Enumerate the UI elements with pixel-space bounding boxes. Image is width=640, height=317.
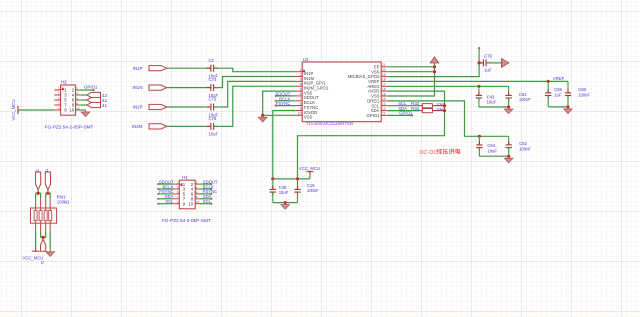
capacitor C69 — [545, 81, 551, 107]
wire RN1 pin4 to ground — [49, 232, 51, 250]
power port VCC_MCU (RN1 bottom) — [32, 248, 40, 251]
svg-text:10uF: 10uF — [209, 132, 219, 137]
ground (H2 pin10) — [81, 110, 90, 117]
U3 left pin stubs 1-10 — [296, 72, 303, 116]
wire RN1 pin2 down — [40, 232, 42, 238]
capacitor C62 — [506, 136, 512, 156]
open wire end — [275, 100, 277, 102]
wire H1 left FSYNC — [158, 193, 173, 195]
connector H2 body — [61, 85, 76, 115]
U3 right pin names — [348, 64, 380, 118]
svg-text:20: 20 — [382, 68, 386, 72]
ground (AREG caps) — [504, 107, 513, 114]
svg-text:TLV320ADC5120IRTER: TLV320ADC5120IRTER — [306, 121, 353, 126]
net flag IN2P — [149, 104, 167, 109]
open wire end — [210, 198, 212, 200]
wire C74 to U3 — [221, 77, 296, 88]
annotation chinese glyphs (drawn) — [437, 149, 460, 154]
wire U3 SDA pin12 to R34 — [388, 110, 420, 112]
svg-text:10uF: 10uF — [487, 148, 497, 153]
wire H2 pin6 — [80, 99, 87, 101]
svg-text:FG-PZ2 54-2-05P-SMT: FG-PZ2 54-2-05P-SMT — [162, 218, 211, 223]
svg-text:C75: C75 — [209, 97, 217, 102]
svg-text:1uF: 1uF — [484, 68, 492, 73]
junction (R33 to rail) — [443, 104, 446, 107]
connector H1 body — [179, 180, 195, 209]
wire H1 right SCL — [200, 203, 212, 205]
net flag 41 — [87, 102, 101, 107]
wire U3 EP pin21 — [388, 66, 435, 68]
wire U3 SDOUT pin6 — [276, 95, 296, 97]
wire junction to RN1 pins 1-2 — [36, 193, 41, 199]
resistor network RN1 — [31, 199, 57, 232]
capacitor C16 — [294, 179, 300, 203]
junction (C68 bottom) — [566, 105, 569, 108]
svg-text:18: 18 — [382, 78, 386, 82]
resistor R33 — [419, 104, 444, 108]
svg-text:C74: C74 — [209, 77, 217, 82]
junction (decoupling ground) — [284, 201, 287, 204]
open wire end — [411, 114, 413, 116]
wire H1 left BCLK — [158, 188, 173, 190]
svg-text:11: 11 — [45, 169, 49, 173]
wire flag12 to junction — [37, 190, 39, 193]
wire H2 pin10 to ground — [80, 109, 85, 111]
svg-text:42: 42 — [40, 261, 44, 265]
wire H1 left SCL — [158, 203, 173, 205]
net flag IN1P — [149, 66, 167, 71]
svg-text:10: 10 — [76, 106, 80, 110]
junction (C62 bottom) — [507, 155, 510, 158]
wire C45-C16 bottoms — [273, 202, 298, 204]
wire to RN1 pin3 — [45, 193, 47, 199]
svg-text:100kΩ: 100kΩ — [57, 200, 70, 205]
svg-text:IN2P: IN2P — [133, 105, 143, 110]
junction (C45 top) — [271, 177, 274, 180]
svg-text:VSS: VSS — [304, 115, 313, 120]
junction (C79 left) — [478, 61, 481, 64]
open wire end — [157, 193, 159, 195]
junction (RN1 bottom mid) — [42, 236, 45, 239]
net flag IN1N — [149, 85, 167, 90]
ground (VREF caps) — [564, 107, 573, 114]
net flag 42 — [87, 97, 101, 102]
wire VCC rail — [298, 101, 445, 179]
net flag 43 — [87, 92, 101, 97]
svg-text:7: 7 — [300, 97, 302, 101]
svg-text:100nF: 100nF — [578, 92, 590, 97]
open wire end — [210, 193, 212, 195]
net flag (RN1 pin3/4 top) — [45, 172, 50, 190]
wire VCC_MCU node — [273, 178, 310, 180]
wire U3 VREF pin18 — [388, 80, 568, 82]
svg-text:H2: H2 — [61, 80, 67, 85]
capacitor C79 — [479, 59, 491, 66]
svg-text:10: 10 — [196, 200, 200, 204]
capacitor C2 — [204, 65, 222, 72]
svg-text:9: 9 — [300, 107, 302, 111]
U3 pin-1 arrow — [303, 70, 305, 73]
svg-text:FSYNC: FSYNC — [276, 101, 291, 106]
ground (U3 VSS) — [258, 115, 267, 122]
svg-text:SCL: SCL — [165, 199, 174, 204]
junction (C61 bottom) — [507, 105, 510, 108]
svg-text:1: 1 — [300, 68, 302, 72]
svg-text:8: 8 — [300, 102, 302, 106]
ground (C45/C16) — [281, 203, 290, 210]
svg-text:GPIO1: GPIO1 — [367, 113, 381, 118]
power flag right (MICBIAS) — [502, 59, 509, 68]
svg-text:IN2M: IN2M — [132, 124, 143, 129]
wire IN2P to C75 — [167, 106, 204, 108]
svg-text:5: 5 — [300, 87, 302, 91]
wire flag11 to junction — [47, 190, 49, 193]
wire U3 DREG pin14 to C64/C62 — [388, 101, 509, 136]
wire H2 pin2 GPIO1 — [80, 89, 93, 91]
svg-text:H1: H1 — [182, 175, 188, 180]
junction (VSS ground) — [261, 114, 264, 117]
svg-text:FG-PZ2 54-2-05P-SMT: FG-PZ2 54-2-05P-SMT — [45, 125, 94, 130]
svg-text:3: 3 — [300, 78, 302, 82]
H2 pin stubs right (2,4,6,8,10) — [76, 90, 81, 110]
svg-text:16: 16 — [382, 87, 386, 91]
svg-text:GPIO1: GPIO1 — [399, 111, 413, 116]
wire stub above C79 — [478, 48, 480, 63]
capacitor C61 — [505, 86, 511, 107]
wire U3 IOVDD pin9 down to VCC rail — [273, 111, 296, 179]
wire C64-C62 bottoms — [479, 155, 508, 157]
capacitor C64 — [476, 136, 482, 156]
svg-text:100nF: 100nF — [519, 97, 531, 102]
resistor R34 — [419, 109, 444, 113]
wire H2 pin4 — [80, 94, 87, 96]
wire IN2M to C76 — [167, 125, 204, 127]
svg-text:4: 4 — [300, 83, 302, 87]
junction (C16 top) — [296, 177, 299, 180]
open wire end — [157, 203, 159, 205]
svg-text:17: 17 — [382, 83, 386, 87]
junction (C43 top) — [477, 85, 480, 88]
open wire end — [275, 95, 277, 97]
wire U3 BCLK pin7 — [276, 100, 296, 102]
svg-text:10: 10 — [69, 108, 74, 113]
U3 left pin numbers — [298, 68, 302, 116]
junction (R34 to rail) — [443, 109, 446, 112]
net flag (RN1 pin1/2 top) — [36, 172, 41, 190]
svg-text:C2: C2 — [209, 58, 215, 63]
wire H1 left SDOUT — [158, 183, 173, 185]
ground (DREG caps) — [504, 156, 513, 163]
svg-text:12: 12 — [382, 107, 386, 111]
H1 pin stubs left — [173, 184, 179, 204]
H1 inner pin numbers — [183, 182, 194, 207]
open wire end — [210, 183, 212, 185]
wire H1 right BCLK — [200, 188, 212, 190]
svg-text:15: 15 — [382, 92, 386, 96]
open wire end — [157, 183, 159, 185]
junction (C69 top) — [547, 80, 550, 83]
power port VCC_MCU (left) — [17, 106, 19, 114]
svg-text:VCC_MCU: VCC_MCU — [23, 255, 44, 260]
H2 pin-1 arrow — [62, 88, 64, 91]
net flag IN2M — [149, 124, 167, 129]
wire to VCC_MCU port — [309, 174, 311, 179]
capacitor C68 — [565, 81, 571, 107]
wire RN1 pin1 to VCC_MCU — [35, 232, 37, 248]
open wire end — [210, 203, 212, 205]
svg-text:R34: R34 — [411, 106, 419, 111]
svg-text:41: 41 — [102, 103, 108, 108]
svg-text:10: 10 — [188, 201, 193, 206]
wire U3 VSS pin20 — [388, 71, 435, 73]
svg-text:1uF: 1uF — [554, 92, 562, 97]
wire H1 right FSYNC — [200, 193, 212, 195]
wire C69-C68 bottoms — [548, 106, 568, 108]
wire junction to RN1 pins 3-4 — [46, 193, 51, 199]
H2 pin stubs left (1,3,5,7,9) — [54, 90, 60, 110]
ground (RN1) — [46, 250, 55, 257]
capacitor C74 — [204, 84, 222, 91]
power flag up (VSS net) — [430, 57, 439, 63]
wire H1 right SDA — [200, 198, 212, 200]
wire C76 to U3 — [221, 86, 296, 126]
svg-text:10: 10 — [298, 112, 302, 116]
wire U3 MICBIAS_GPO2 pin19 to C79 — [388, 63, 479, 77]
H2 outer pin numbers — [58, 86, 80, 110]
H1 pin-1 arrow — [180, 183, 182, 186]
wire to RN1 pin1 — [35, 193, 37, 199]
svg-text:IN1N: IN1N — [132, 85, 142, 90]
junction (VSS20) — [433, 70, 436, 73]
wire U3 AVDD pin16 to rail — [388, 91, 445, 101]
wire IN1N to C74 — [167, 87, 204, 89]
capacitor C45 — [270, 179, 276, 203]
wire U3 VSS pin10 — [263, 114, 296, 116]
wire U3 VSS pin15 up to power flag — [388, 63, 435, 96]
wire RN1 pin3 down — [41, 232, 46, 238]
svg-text:13: 13 — [382, 102, 386, 106]
svg-text:U3: U3 — [303, 57, 309, 62]
svg-text:6: 6 — [300, 92, 302, 96]
wire U3 GPIO1 pin11 — [388, 114, 412, 116]
svg-text:2: 2 — [300, 73, 302, 77]
junction (EP) — [433, 65, 436, 68]
power port VCC_MCU (node) — [306, 172, 313, 175]
svg-text:GPIO1: GPIO1 — [84, 85, 98, 90]
U3 right pin numbers — [382, 63, 386, 116]
wire U3 VSS pin5 to ground — [263, 91, 296, 115]
capacitor C75 — [204, 104, 222, 111]
wire C79 to power flag — [491, 62, 502, 64]
svg-text:IN1P: IN1P — [133, 66, 143, 71]
junction (RN1 top left) — [37, 192, 40, 195]
open wire end — [275, 105, 277, 107]
net flag (RN1 bottom) — [41, 239, 46, 251]
wire H1 left SDA — [158, 198, 173, 200]
wire C75 to U3 — [221, 81, 296, 107]
svg-text:SCL: SCL — [203, 199, 212, 204]
wire VCC_MCU to H2 pin 9 — [19, 109, 55, 111]
open wire end — [92, 89, 94, 91]
junction (C64 top) — [478, 135, 481, 138]
wire H1 right SDOUT — [200, 183, 212, 185]
svg-text:VCC_MCU: VCC_MCU — [299, 166, 320, 171]
capacitor C43 — [476, 86, 482, 107]
svg-text:21: 21 — [382, 63, 386, 67]
junction (RN1 top right) — [46, 192, 49, 195]
U3 right pin stubs 21-11 — [381, 67, 388, 116]
op-amp U3 body (TLV320ADC5120) — [302, 62, 381, 122]
svg-text:10uF: 10uF — [279, 190, 289, 195]
svg-text:C76: C76 — [209, 116, 217, 121]
open wire end — [157, 198, 159, 200]
svg-text:VCC_MCU: VCC_MCU — [11, 99, 16, 120]
wire U3 SCL pin13 to R33 — [388, 105, 420, 107]
svg-text:11: 11 — [382, 112, 386, 116]
svg-text:C79: C79 — [484, 53, 492, 58]
svg-text:VREF: VREF — [553, 76, 565, 81]
svg-text:19: 19 — [382, 73, 386, 77]
H1 pin stubs right — [195, 184, 199, 204]
wire U3 AREG pin17 — [388, 85, 509, 87]
capacitor C76 — [204, 123, 222, 130]
wire H2 pin8 — [80, 104, 87, 106]
svg-text:DC-DC: DC-DC — [419, 150, 437, 156]
wire IN1P to C2 — [167, 67, 204, 69]
svg-text:100nF: 100nF — [519, 146, 531, 151]
svg-text:100nF: 100nF — [307, 188, 319, 193]
open wire end — [157, 188, 159, 190]
open end above C79 — [478, 47, 480, 49]
wire C43-C61 bottoms — [479, 106, 509, 108]
open wire end — [210, 188, 212, 190]
H1 outer pin numbers — [177, 181, 200, 205]
H2 inner pin numbers — [64, 88, 75, 113]
wire U3 FSYNC pin8 — [276, 105, 296, 107]
svg-text:10uF: 10uF — [487, 100, 497, 105]
U3 left pin names — [304, 71, 329, 120]
svg-text:12: 12 — [35, 169, 39, 173]
svg-text:14: 14 — [382, 97, 386, 101]
wire C2 to U3 — [221, 68, 296, 72]
